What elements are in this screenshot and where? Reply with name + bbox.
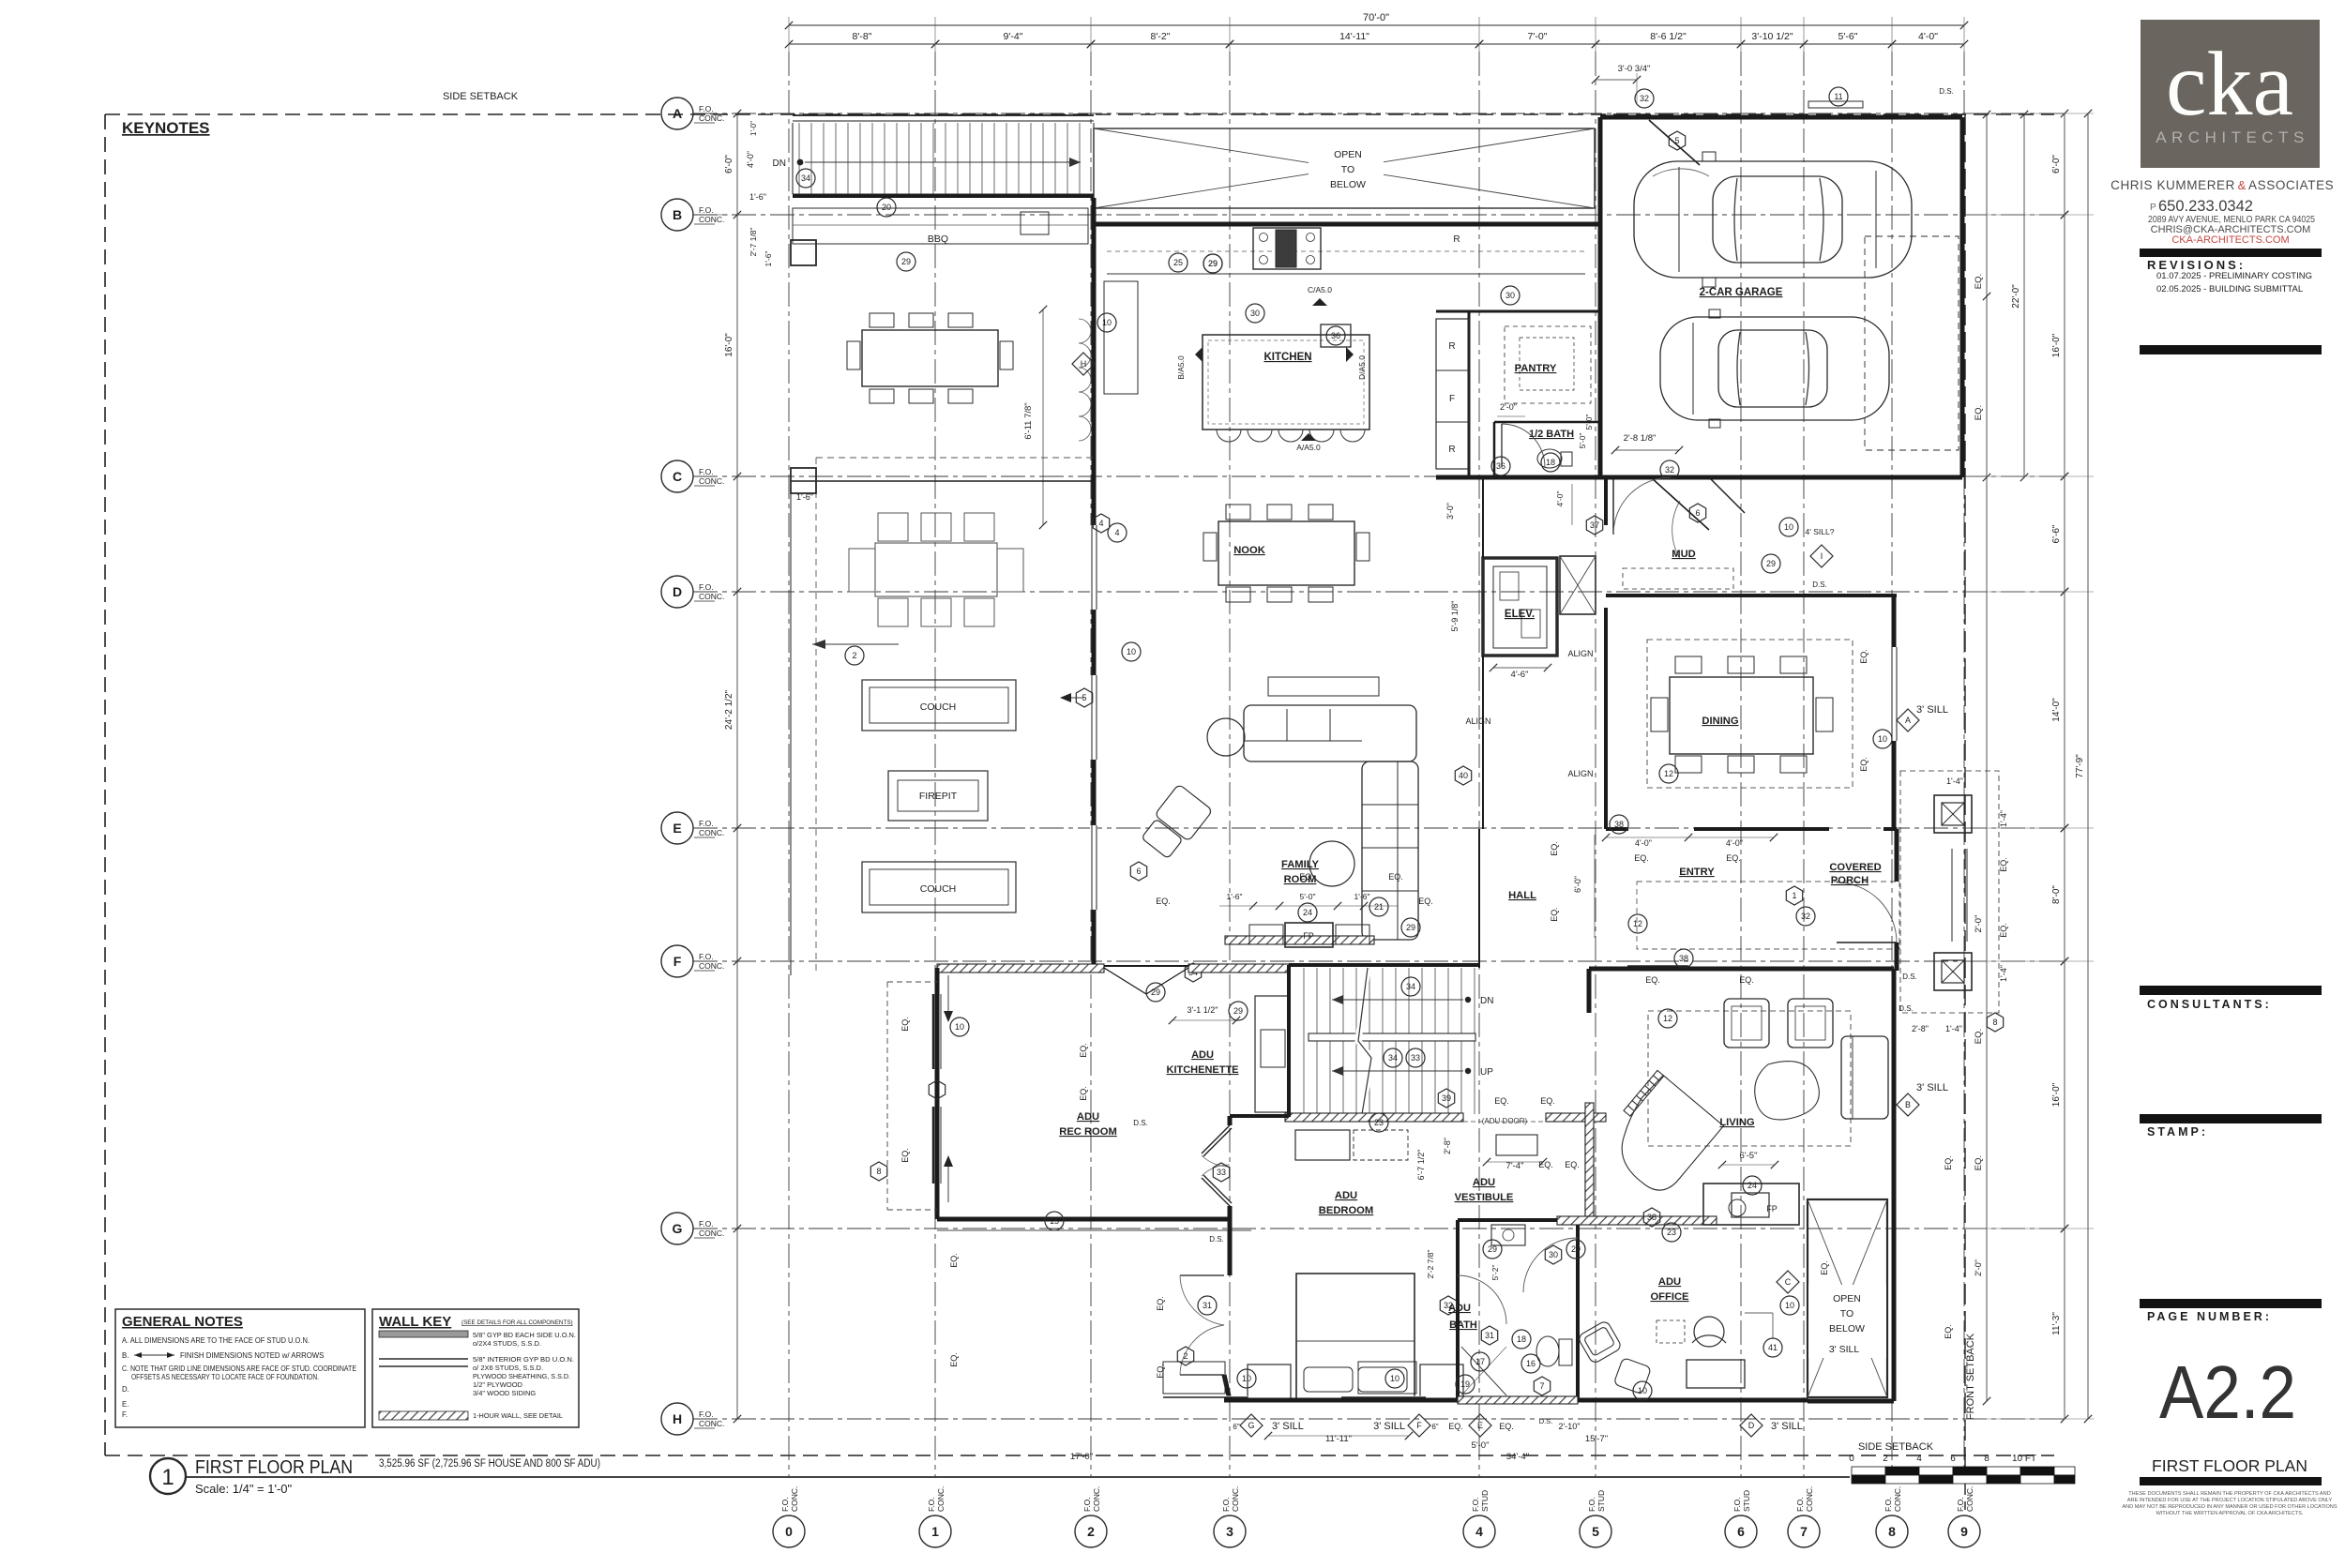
- svg-text:EQ.: EQ.: [1499, 1422, 1514, 1431]
- svg-text:EQ.: EQ.: [1156, 1296, 1165, 1311]
- svg-text:16'-0": 16'-0": [724, 333, 734, 357]
- svg-text:34: 34: [1406, 982, 1415, 991]
- svg-text:12: 12: [1664, 769, 1673, 778]
- svg-text:A/A5.0: A/A5.0: [1296, 443, 1321, 452]
- svg-text:DN: DN: [773, 158, 786, 169]
- svg-text:32: 32: [1665, 465, 1674, 475]
- svg-text:6: 6: [1136, 867, 1141, 876]
- svg-text:39: 39: [1442, 1093, 1451, 1103]
- svg-text:29: 29: [1488, 1244, 1497, 1254]
- svg-text:REC ROOM: REC ROOM: [1059, 1126, 1117, 1138]
- svg-text:2'-2 7/8": 2'-2 7/8": [1426, 1249, 1435, 1278]
- svg-text:4' SILL?: 4' SILL?: [1806, 527, 1835, 536]
- svg-text:CONC.: CONC.: [699, 592, 724, 601]
- svg-text:2: 2: [1087, 1524, 1095, 1539]
- svg-text:2'-8": 2'-8": [1443, 1138, 1452, 1154]
- svg-text:EQ.: EQ.: [900, 1017, 910, 1032]
- svg-text:31: 31: [1203, 1301, 1212, 1310]
- svg-text:B.: B.: [122, 1351, 129, 1360]
- svg-text:EQ.: EQ.: [1418, 897, 1433, 906]
- svg-text:2: 2: [1883, 1454, 1888, 1464]
- svg-text:STUD: STUD: [1596, 1490, 1606, 1512]
- svg-text:BEDROOM: BEDROOM: [1319, 1205, 1373, 1216]
- svg-text:VESTIBULE: VESTIBULE: [1455, 1192, 1514, 1203]
- svg-text:F: F: [1416, 1421, 1422, 1430]
- svg-text:H: H: [673, 1411, 682, 1426]
- svg-text:14'-0": 14'-0": [2051, 698, 2062, 722]
- svg-text:6": 6": [1431, 1423, 1438, 1431]
- svg-text:3'-0 3/4": 3'-0 3/4": [1618, 64, 1651, 74]
- svg-text:E.: E.: [122, 1400, 129, 1409]
- svg-text:6'-6": 6'-6": [2051, 524, 2062, 543]
- svg-text:2'-10": 2'-10": [1559, 1422, 1581, 1431]
- svg-text:PORCH: PORCH: [1831, 875, 1868, 886]
- svg-text:KITCHEN: KITCHEN: [1263, 352, 1311, 363]
- svg-text:CONC.: CONC.: [1893, 1486, 1902, 1512]
- svg-text:R: R: [1453, 234, 1460, 245]
- svg-text:PLYWOOD SHEATHING, S.S.D.: PLYWOOD SHEATHING, S.S.D.: [473, 1372, 570, 1380]
- svg-text:(SEE DETAILS FOR ALL COMPONENT: (SEE DETAILS FOR ALL COMPONENTS): [461, 1319, 573, 1326]
- svg-text:15'-7": 15'-7": [1585, 1434, 1608, 1444]
- svg-text:BELOW: BELOW: [1829, 1323, 1865, 1334]
- svg-text:OFFSETS AS NECESSARY TO LOCATE: OFFSETS AS NECESSARY TO LOCATE FACE OF F…: [131, 1373, 319, 1381]
- svg-text:ASSOCIATES: ASSOCIATES: [2248, 178, 2334, 192]
- svg-text:21: 21: [1374, 902, 1384, 912]
- svg-text:EQ.: EQ.: [1299, 872, 1314, 882]
- svg-text:cka: cka: [2166, 34, 2293, 135]
- svg-text:EQ.: EQ.: [1820, 1260, 1829, 1275]
- svg-text:STUD: STUD: [1480, 1490, 1490, 1512]
- svg-text:22'-0": 22'-0": [2011, 284, 2021, 309]
- svg-text:ALIGN: ALIGN: [1567, 769, 1593, 778]
- svg-text:4'-0": 4'-0": [746, 151, 755, 168]
- svg-text:COVERED: COVERED: [1829, 862, 1881, 873]
- svg-text:8'-6 1/2": 8'-6 1/2": [1650, 31, 1687, 42]
- svg-text:1'-4": 1'-4": [1999, 810, 2008, 827]
- svg-text:E: E: [1477, 1421, 1483, 1430]
- svg-text:5/8" GYP BD EACH SIDE U.O.N.: 5/8" GYP BD EACH SIDE U.O.N.: [473, 1331, 576, 1339]
- svg-text:6'-5": 6'-5": [1740, 1151, 1758, 1161]
- svg-text:CONC.: CONC.: [790, 1486, 799, 1512]
- svg-text:EQ.: EQ.: [1540, 1096, 1555, 1106]
- svg-text:EQ.: EQ.: [1079, 1086, 1088, 1101]
- svg-text:5'-0": 5'-0": [1584, 415, 1594, 430]
- svg-text:2'-0": 2'-0": [1974, 1259, 1983, 1276]
- svg-text:8: 8: [876, 1167, 881, 1176]
- svg-text:CKA-ARCHITECTS.COM: CKA-ARCHITECTS.COM: [2171, 234, 2289, 246]
- svg-text:EQ.: EQ.: [1634, 853, 1649, 863]
- svg-text:33: 33: [1217, 1168, 1226, 1177]
- svg-text:4'-6": 4'-6": [1511, 670, 1529, 680]
- svg-text:12: 12: [1633, 919, 1642, 928]
- svg-text:37: 37: [1590, 520, 1599, 530]
- svg-text:3' SILL: 3' SILL: [1916, 704, 1948, 716]
- svg-text:EQ.: EQ.: [1565, 1160, 1580, 1169]
- svg-text:F.O.: F.O.: [1221, 1497, 1231, 1512]
- svg-text:1/2 BATH: 1/2 BATH: [1529, 429, 1574, 440]
- svg-text:40: 40: [1459, 771, 1468, 780]
- svg-text:32: 32: [1444, 1301, 1453, 1310]
- svg-text:6: 6: [1950, 1454, 1956, 1464]
- svg-text:G: G: [673, 1221, 683, 1236]
- svg-text:4: 4: [1916, 1454, 1922, 1464]
- svg-text:3' SILL: 3' SILL: [1373, 1421, 1405, 1432]
- svg-text:TO: TO: [1840, 1308, 1853, 1319]
- svg-text:EQ.: EQ.: [1388, 872, 1403, 882]
- svg-text:6'-0": 6'-0": [1573, 876, 1582, 893]
- svg-text:77'-9": 77'-9": [2075, 754, 2085, 778]
- svg-text:23: 23: [1667, 1228, 1676, 1237]
- svg-text:R: R: [1448, 445, 1455, 455]
- svg-text:FP: FP: [1303, 931, 1314, 941]
- svg-text:24: 24: [1747, 1181, 1757, 1190]
- svg-text:34: 34: [1388, 1053, 1398, 1063]
- svg-text:EQ.: EQ.: [1859, 649, 1868, 664]
- svg-text:01.07.2025 - PRELIMINARY COSTI: 01.07.2025 - PRELIMINARY COSTING: [2156, 271, 2312, 281]
- svg-text:EQ.: EQ.: [1156, 897, 1171, 906]
- svg-text:KITCHENETTE: KITCHENETTE: [1167, 1064, 1239, 1076]
- svg-text:KEYNOTES: KEYNOTES: [122, 119, 210, 137]
- svg-text:F.O.: F.O.: [1587, 1497, 1596, 1512]
- svg-text:36: 36: [1331, 331, 1340, 340]
- svg-text:1/2" PLYWOOD: 1/2" PLYWOOD: [473, 1380, 523, 1389]
- svg-text:C. NOTE THAT GRID LINE DIMENS: C. NOTE THAT GRID LINE DIMENSIONS ARE FA…: [122, 1364, 356, 1373]
- svg-text:F.O.: F.O.: [699, 819, 714, 828]
- svg-text:1'-4": 1'-4": [1945, 1024, 1962, 1033]
- svg-text:CONC.: CONC.: [699, 113, 724, 123]
- svg-text:EQ.: EQ.: [1494, 1096, 1509, 1106]
- svg-text:650.233.0342: 650.233.0342: [2158, 198, 2253, 215]
- svg-text:A2.2: A2.2: [2159, 1350, 2296, 1434]
- svg-text:WITHOUT THE WRITTEN APPROVAL O: WITHOUT THE WRITTEN APPROVAL OF CKA ARCH…: [2156, 1511, 2304, 1516]
- svg-text:CONSULTANTS:: CONSULTANTS:: [2147, 998, 2272, 1011]
- svg-text:10: 10: [955, 1022, 964, 1032]
- svg-text:29: 29: [1571, 1244, 1581, 1254]
- svg-text:5'-9 1/8": 5'-9 1/8": [1450, 601, 1460, 632]
- svg-text:EQ.: EQ.: [1974, 1029, 1984, 1044]
- svg-text:16'-0": 16'-0": [2051, 333, 2062, 357]
- svg-text:F.O.: F.O.: [699, 952, 714, 961]
- svg-text:4: 4: [1098, 519, 1103, 528]
- svg-text:LIVING: LIVING: [1719, 1117, 1755, 1128]
- svg-text:17'-0": 17'-0": [1070, 1452, 1093, 1462]
- svg-text:6": 6": [1233, 1423, 1239, 1431]
- svg-text:5'-2": 5'-2": [1490, 1265, 1500, 1281]
- svg-text:0: 0: [785, 1524, 793, 1539]
- svg-text:CONC.: CONC.: [699, 476, 724, 486]
- svg-text:CHRIS KUMMERER: CHRIS KUMMERER: [2110, 178, 2235, 192]
- svg-text:1'-6": 1'-6": [764, 251, 773, 267]
- svg-text:7'-4": 7'-4": [1506, 1161, 1524, 1171]
- svg-text:70'-0": 70'-0": [1363, 12, 1389, 23]
- svg-text:29: 29: [901, 257, 911, 266]
- svg-text:9'-4": 9'-4": [1004, 31, 1023, 42]
- svg-text:GENERAL NOTES: GENERAL NOTES: [122, 1314, 243, 1330]
- svg-text:8: 8: [1984, 1454, 1989, 1464]
- svg-text:A: A: [1905, 716, 1911, 725]
- svg-text:1'-4": 1'-4": [1999, 965, 2008, 982]
- svg-text:DN: DN: [1480, 996, 1493, 1006]
- svg-text:B: B: [1905, 1100, 1911, 1109]
- svg-text:1'-6": 1'-6": [749, 192, 766, 202]
- svg-text:3' SILL: 3' SILL: [1272, 1421, 1304, 1432]
- svg-text:3'-0": 3'-0": [1445, 503, 1455, 520]
- svg-text:D.S.: D.S.: [1902, 972, 1917, 981]
- svg-text:PAGE NUMBER:: PAGE NUMBER:: [2147, 1310, 2272, 1323]
- svg-text:EQ.: EQ.: [1538, 1160, 1553, 1169]
- svg-text:EQ.: EQ.: [1859, 757, 1868, 772]
- svg-text:H: H: [1081, 359, 1087, 369]
- svg-text:EQ.: EQ.: [1550, 907, 1559, 922]
- svg-text:10: 10: [1127, 647, 1136, 656]
- svg-text:MUD: MUD: [1672, 549, 1695, 560]
- svg-text:4'-0": 4'-0": [1555, 491, 1565, 507]
- svg-text:EQ.: EQ.: [1079, 1043, 1088, 1058]
- svg-text:F.O.: F.O.: [780, 1497, 790, 1512]
- svg-text:CONC.: CONC.: [1231, 1486, 1240, 1512]
- svg-text:F.O.: F.O.: [1956, 1497, 1965, 1512]
- svg-text:10: 10: [1638, 1386, 1647, 1395]
- svg-text:3,525.96 SF (2,725.96 SF HOUSE: 3,525.96 SF (2,725.96 SF HOUSE AND 800 S…: [379, 1458, 600, 1470]
- svg-text:F.O.: F.O.: [1795, 1497, 1805, 1512]
- svg-text:2'-7 1/8": 2'-7 1/8": [749, 227, 758, 256]
- svg-text:2'-0": 2'-0": [1974, 915, 1984, 933]
- svg-text:9: 9: [1960, 1524, 1968, 1539]
- svg-text:32: 32: [1640, 94, 1649, 103]
- svg-text:o/ 2X6 STUDS, S.S.D.: o/ 2X6 STUDS, S.S.D.: [473, 1364, 543, 1372]
- svg-text:EQ.: EQ.: [1974, 405, 1984, 420]
- svg-text:3'-10 1/2": 3'-10 1/2": [1751, 31, 1793, 42]
- svg-text:ARE INTENDED FOR USE AT THE PR: ARE INTENDED FOR USE AT THE PROJECT LOCA…: [2127, 1498, 2333, 1503]
- svg-text:EQ.: EQ.: [949, 1352, 959, 1367]
- svg-text:10 FT: 10 FT: [2012, 1454, 2036, 1464]
- svg-text:G: G: [1248, 1421, 1254, 1430]
- svg-text:3: 3: [1226, 1524, 1233, 1539]
- svg-text:FINISH DIMENSIONS NOTED w/ ARR: FINISH DIMENSIONS NOTED w/ ARROWS: [180, 1351, 324, 1360]
- svg-text:1'-4": 1'-4": [1946, 776, 1963, 786]
- svg-text:2'-8": 2'-8": [1912, 1024, 1929, 1033]
- svg-text:6'-11 7/8": 6'-11 7/8": [1023, 402, 1034, 439]
- svg-text:EQ.: EQ.: [900, 1148, 910, 1163]
- svg-text:10: 10: [1878, 734, 1887, 744]
- svg-text:36: 36: [1496, 461, 1505, 471]
- svg-text:FIRST FLOOR PLAN: FIRST FLOOR PLAN: [2152, 1456, 2307, 1475]
- svg-text:29: 29: [1766, 559, 1776, 568]
- svg-text:ENTRY: ENTRY: [1679, 867, 1715, 878]
- svg-text:3' SILL: 3' SILL: [1829, 1344, 1860, 1355]
- svg-text:24: 24: [1303, 908, 1312, 917]
- svg-text:A. ALL DIMENSIONS ARE TO THE: A. ALL DIMENSIONS ARE TO THE FACE OF STU…: [122, 1336, 310, 1345]
- svg-text:SIDE SETBACK: SIDE SETBACK: [1858, 1441, 1934, 1453]
- svg-text:2-CAR GARAGE: 2-CAR GARAGE: [1700, 287, 1783, 298]
- svg-text:SIDE SETBACK: SIDE SETBACK: [443, 91, 519, 102]
- svg-text:FP: FP: [1766, 1204, 1778, 1214]
- svg-text:TO: TO: [1341, 164, 1354, 175]
- svg-text:D.S.: D.S.: [1939, 87, 1954, 96]
- svg-text:ARCHITECTS: ARCHITECTS: [2156, 128, 2309, 146]
- svg-text:B: B: [673, 207, 682, 222]
- svg-text:F.O.: F.O.: [1471, 1497, 1480, 1512]
- svg-text:8'-2": 8'-2": [1151, 31, 1171, 42]
- svg-text:1-HOUR WALL, SEE DETAIL: 1-HOUR WALL, SEE DETAIL: [473, 1411, 563, 1420]
- svg-text:38: 38: [1647, 1213, 1657, 1222]
- svg-text:UP: UP: [1480, 1067, 1493, 1078]
- svg-text:25: 25: [1173, 258, 1183, 267]
- svg-text:STAMP:: STAMP:: [2147, 1125, 2208, 1138]
- svg-text:2: 2: [852, 651, 856, 660]
- svg-text:F.O.: F.O.: [1732, 1497, 1742, 1512]
- svg-text:1'-0": 1'-0": [749, 121, 758, 136]
- svg-text:4: 4: [1475, 1524, 1483, 1539]
- svg-text:1'-6": 1'-6": [1227, 892, 1243, 901]
- svg-text:EQ.: EQ.: [1739, 975, 1754, 985]
- svg-text:E: E: [673, 821, 681, 836]
- svg-text:4'-0": 4'-0": [1918, 31, 1938, 42]
- svg-text:38: 38: [1614, 820, 1624, 829]
- svg-text:HALL: HALL: [1508, 890, 1536, 901]
- svg-text:NOOK: NOOK: [1233, 545, 1265, 556]
- svg-text:D: D: [1748, 1421, 1755, 1430]
- svg-text:D.S.: D.S.: [1209, 1235, 1224, 1244]
- svg-text:CONC.: CONC.: [699, 961, 724, 971]
- svg-text:DINING: DINING: [1702, 716, 1738, 727]
- svg-text:CONC.: CONC.: [699, 1229, 724, 1238]
- svg-text:1: 1: [931, 1524, 939, 1539]
- svg-text:EQ.: EQ.: [1999, 857, 2008, 872]
- svg-text:C: C: [673, 469, 682, 484]
- svg-text:18: 18: [1517, 1334, 1526, 1344]
- svg-text:BELOW: BELOW: [1330, 179, 1366, 190]
- svg-text:10: 10: [1102, 318, 1112, 327]
- svg-text:CONC.: CONC.: [1965, 1486, 1974, 1512]
- svg-text:8: 8: [1888, 1524, 1896, 1539]
- svg-text:ADU: ADU: [1335, 1190, 1357, 1201]
- svg-text:32: 32: [1801, 912, 1810, 921]
- svg-text:F: F: [1449, 394, 1455, 404]
- svg-text:D.: D.: [122, 1385, 129, 1394]
- svg-text:11: 11: [1834, 92, 1842, 101]
- svg-text:PANTRY: PANTRY: [1515, 363, 1557, 374]
- svg-text:23: 23: [1374, 1118, 1384, 1127]
- svg-text:7'-0": 7'-0": [1528, 31, 1548, 42]
- svg-text:P: P: [2150, 203, 2156, 213]
- svg-text:0: 0: [1849, 1454, 1854, 1464]
- svg-text:EQ.: EQ.: [1645, 975, 1660, 985]
- svg-text:16'-0": 16'-0": [2051, 1082, 2062, 1107]
- svg-text:EQ.: EQ.: [1944, 1324, 1953, 1339]
- svg-text:34'-4": 34'-4": [1506, 1452, 1529, 1462]
- svg-text:(ADU DOOR): (ADU DOOR): [1482, 1117, 1528, 1125]
- svg-text:COUCH: COUCH: [920, 701, 957, 713]
- svg-text:D.S.: D.S.: [1539, 1417, 1553, 1425]
- svg-text:BATH: BATH: [1449, 1319, 1477, 1331]
- svg-text:EQ.: EQ.: [1999, 923, 2008, 938]
- svg-text:29: 29: [1151, 988, 1160, 997]
- svg-text:C: C: [1785, 1277, 1792, 1287]
- svg-text:Scale: 1/4" = 1'-0": Scale: 1/4" = 1'-0": [195, 1482, 293, 1496]
- svg-text:19: 19: [1460, 1380, 1470, 1389]
- svg-text:REVISIONS:: REVISIONS:: [2147, 258, 2246, 272]
- svg-text:F: F: [673, 954, 682, 969]
- svg-text:ADU: ADU: [1191, 1049, 1214, 1061]
- svg-text:5/8" INTERIOR GYP BD U.O.N.: 5/8" INTERIOR GYP BD U.O.N.: [473, 1355, 574, 1364]
- svg-text:4: 4: [1114, 528, 1119, 537]
- svg-text:5'-6": 5'-6": [1838, 31, 1858, 42]
- svg-text:F.: F.: [122, 1410, 128, 1419]
- svg-text:29: 29: [1233, 1006, 1243, 1016]
- svg-text:5'-0": 5'-0": [1472, 1440, 1490, 1451]
- svg-text:31: 31: [1485, 1331, 1494, 1340]
- svg-text:CONC.: CONC.: [1092, 1486, 1101, 1512]
- svg-text:AND MAY NOT BE REPRODUCED IN A: AND MAY NOT BE REPRODUCED IN ANY MANNER …: [2122, 1504, 2337, 1510]
- svg-text:F.O.: F.O.: [1884, 1497, 1893, 1512]
- svg-text:B/A5.0: B/A5.0: [1176, 355, 1186, 380]
- svg-text:ALIGN: ALIGN: [1465, 716, 1490, 726]
- svg-text:WALL KEY: WALL KEY: [379, 1314, 451, 1330]
- svg-text:COUCH: COUCH: [920, 883, 957, 895]
- svg-text:6'-0": 6'-0": [2051, 155, 2062, 173]
- svg-text:EQ.: EQ.: [1944, 1155, 1953, 1170]
- svg-text:FIRST FLOOR PLAN: FIRST FLOOR PLAN: [195, 1457, 353, 1478]
- svg-text:30: 30: [1505, 291, 1515, 300]
- svg-text:6'-0": 6'-0": [724, 155, 734, 173]
- svg-text:02.05.2025 - BUILDING SUBMITTA: 02.05.2025 - BUILDING SUBMITTAL: [2156, 284, 2303, 294]
- svg-text:1: 1: [161, 1465, 174, 1490]
- svg-text:EQ.: EQ.: [1448, 1422, 1463, 1431]
- svg-text:5: 5: [1674, 136, 1679, 145]
- svg-text:4'-0": 4'-0": [1726, 838, 1743, 848]
- svg-text:FAMILY: FAMILY: [1281, 859, 1320, 870]
- svg-text:18: 18: [1546, 458, 1555, 467]
- svg-text:17: 17: [1475, 1357, 1485, 1366]
- svg-text:30: 30: [1250, 309, 1260, 318]
- svg-text:OPEN: OPEN: [1833, 1293, 1861, 1304]
- svg-text:10: 10: [1390, 1374, 1399, 1383]
- svg-text:12: 12: [1663, 1014, 1672, 1023]
- svg-text:3'-1 1/2": 3'-1 1/2": [1188, 1005, 1218, 1015]
- svg-text:4'-0": 4'-0": [1635, 838, 1652, 848]
- svg-text:STUD: STUD: [1742, 1490, 1751, 1512]
- svg-text:2'-8 1/8": 2'-8 1/8": [1624, 433, 1657, 444]
- svg-text:3/4" WOOD SIDING: 3/4" WOOD SIDING: [473, 1389, 536, 1397]
- svg-text:F.O.: F.O.: [1082, 1497, 1092, 1512]
- svg-text:CONC.: CONC.: [699, 1419, 724, 1428]
- svg-text:20: 20: [882, 203, 891, 212]
- svg-text:EQ.: EQ.: [1974, 274, 1984, 289]
- svg-text:FRONT SETBACK: FRONT SETBACK: [1965, 1333, 1976, 1420]
- svg-text:EQ.: EQ.: [1550, 841, 1559, 856]
- svg-text:o/2X4 STUDS, S.S.D.: o/2X4 STUDS, S.S.D.: [473, 1339, 541, 1348]
- svg-text:ELEV.: ELEV.: [1505, 609, 1535, 620]
- svg-text:10: 10: [1784, 522, 1793, 532]
- svg-text:15: 15: [1050, 1216, 1059, 1226]
- svg-text:10: 10: [1785, 1301, 1794, 1310]
- svg-text:8'-8": 8'-8": [853, 31, 872, 42]
- svg-text:D.S.: D.S.: [1812, 580, 1827, 589]
- svg-text:FIREPIT: FIREPIT: [919, 791, 958, 802]
- svg-text:5: 5: [1592, 1524, 1599, 1539]
- svg-text:EQ.: EQ.: [949, 1253, 959, 1268]
- svg-text:CONC.: CONC.: [1805, 1486, 1814, 1512]
- svg-text:D.S.: D.S.: [1899, 1004, 1914, 1013]
- svg-text:&: &: [2238, 178, 2247, 192]
- svg-text:3' SILL: 3' SILL: [1916, 1082, 1948, 1093]
- svg-text:3: 3: [934, 1085, 939, 1094]
- svg-text:ADU: ADU: [1658, 1276, 1681, 1288]
- svg-text:14'-11": 14'-11": [1339, 31, 1369, 42]
- svg-text:ADU: ADU: [1077, 1111, 1099, 1123]
- svg-text:CONC.: CONC.: [936, 1486, 946, 1512]
